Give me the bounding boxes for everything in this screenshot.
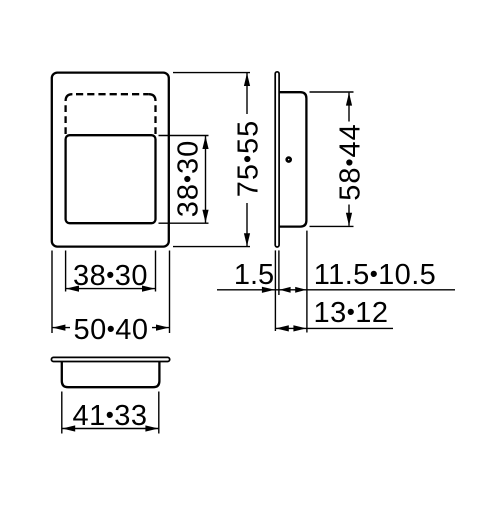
- extension line 50-40 right: [169, 251, 171, 334]
- side view flange plate: [275, 72, 279, 247]
- extension line 58-44 bottom: [310, 225, 354, 227]
- extension line 38-30 right: [155, 251, 157, 292]
- extension line 58-44 top: [310, 91, 354, 93]
- front view dashed recess opening: [66, 94, 73, 101]
- svg-text:38•30: 38•30: [73, 260, 148, 292]
- side view recess cup: [279, 92, 306, 226]
- svg-text:13•12: 13•12: [313, 297, 388, 329]
- dimension line 38-30 horizontal: [66, 288, 155, 290]
- dimension line 1.5 / 11.5-10.5 leader: [217, 289, 455, 291]
- bottom view flange bar: [51, 357, 169, 361]
- bottom view cup outline: [62, 362, 160, 387]
- svg-text:11.5•10.5: 11.5•10.5: [314, 259, 436, 291]
- dimension line 75-55: [246, 73, 248, 114]
- extension line cup back: [306, 231, 308, 333]
- extension line 38-30 vert bottom: [159, 222, 209, 224]
- extension line 75-55 top: [173, 72, 250, 74]
- extension line 38-30 vert top: [159, 135, 209, 137]
- extension line flange back face: [278, 250, 280, 295]
- extension line 38-30 left: [65, 251, 67, 292]
- dimension line 50-40: [52, 327, 70, 329]
- extension line 50-40 left: [51, 251, 53, 334]
- svg-text:41•33: 41•33: [72, 400, 147, 432]
- dimension line 58-44: [348, 93, 350, 122]
- svg-text:1.5: 1.5: [234, 259, 274, 291]
- extension line flange front face: [274, 250, 276, 331]
- dimension line 38-30 vertical: [205, 136, 207, 223]
- svg-text:75•55: 75•55: [233, 120, 265, 198]
- front view outer plate: [52, 73, 169, 247]
- screw hole: [287, 158, 291, 162]
- svg-text:38•30: 38•30: [173, 140, 205, 218]
- extension line 41-33 left: [61, 392, 63, 434]
- dimension line 13-12: [276, 327, 393, 329]
- svg-text:50•40: 50•40: [73, 314, 148, 346]
- front view finger recess square: [66, 135, 156, 223]
- extension line 41-33 right: [158, 392, 160, 434]
- svg-text:58•44: 58•44: [335, 123, 367, 201]
- extension line 75-55 bottom: [173, 246, 250, 248]
- dimension line 41-33: [62, 428, 158, 430]
